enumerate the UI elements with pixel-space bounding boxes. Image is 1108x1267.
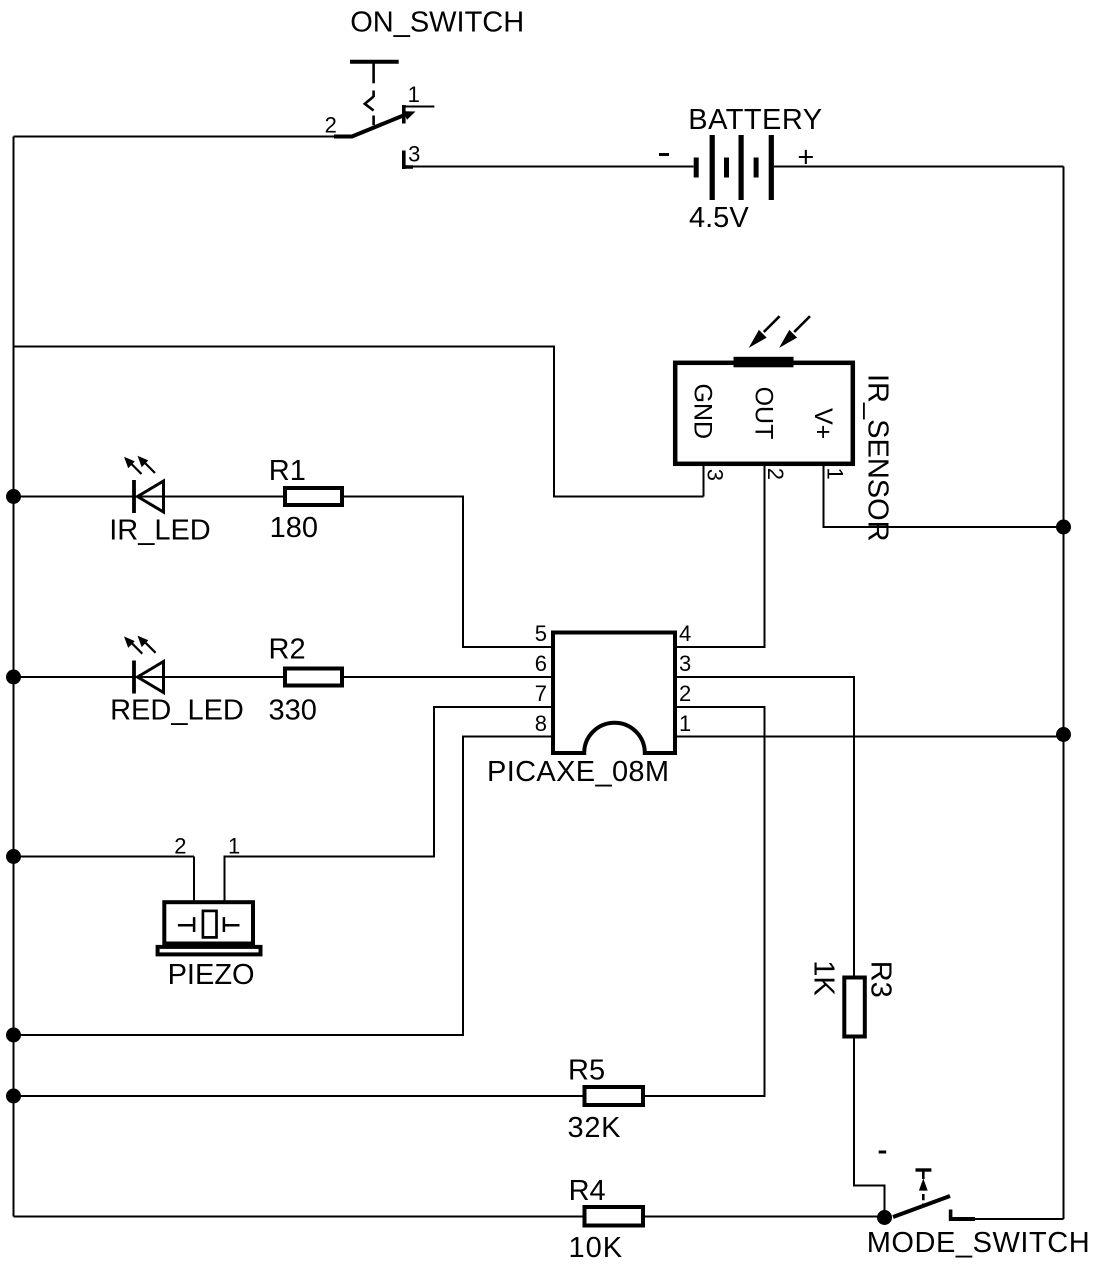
svg-text:2: 2 [325, 112, 337, 137]
LED D2 RED_LED [124, 636, 164, 694]
wire R5 to PICAXE pin 2 [645, 707, 765, 1096]
svg-text:R1: R1 [269, 455, 306, 487]
svg-text:R4: R4 [569, 1175, 606, 1207]
resistor R5 [585, 1087, 644, 1105]
wire R1 to PICAXE pin 5 [344, 497, 553, 648]
svg-text:ON_SWITCH: ON_SWITCH [350, 6, 524, 38]
wire left rail to IR_LED [14, 496, 284, 498]
wire left rail to IR_SENSOR GND pin 3 [14, 347, 704, 497]
battery BT1 4.5V [694, 135, 774, 200]
svg-text:3: 3 [679, 651, 691, 676]
svg-text:R2: R2 [269, 633, 306, 665]
svg-text:1: 1 [408, 82, 420, 107]
svg-text:R3: R3 [864, 961, 896, 998]
label battery minus [659, 153, 669, 156]
svg-text:4.5V: 4.5V [689, 202, 749, 234]
IR sensor U2 IR_SENSOR [675, 316, 853, 464]
wire ON_SWITCH pin 3 to battery minus [411, 166, 694, 168]
piezo sounder LS1 PIEZO [158, 902, 261, 954]
svg-text:MODE_SWITCH: MODE_SWITCH [867, 1227, 1091, 1259]
svg-text:3: 3 [703, 469, 728, 481]
resistor R3 [844, 978, 865, 1037]
wire IR_SENSOR OUT pin 2 to PICAXE pin 4 [675, 465, 765, 647]
svg-text:RED_LED: RED_LED [110, 694, 244, 726]
wire right power rail [1063, 167, 1065, 1220]
wire PIEZO pin 1 to PICAXE pin 7 [225, 707, 554, 903]
svg-text:PICAXE_08M: PICAXE_08M [487, 756, 669, 788]
switch SW1 ON_SWITCH [334, 62, 434, 169]
wire R2 to PICAXE pin 6 [344, 676, 553, 678]
svg-text:2: 2 [763, 468, 788, 480]
resistor R2 [285, 669, 342, 686]
wire left rail to R5 [14, 1095, 583, 1097]
svg-text:1: 1 [228, 833, 240, 858]
svg-text:10K: 10K [569, 1232, 624, 1264]
svg-text:330: 330 [269, 694, 317, 726]
junction node: left rail / IR_LED [6, 489, 21, 504]
wire left rail to PIEZO pin 2 [14, 857, 195, 904]
svg-text:R5: R5 [568, 1055, 605, 1087]
svg-text:PIEZO: PIEZO [168, 959, 255, 991]
junction node: left rail / R5 [6, 1089, 21, 1104]
wire R3 to MODE_SWITCH common [854, 1039, 885, 1218]
wire left rail to R4 [14, 1216, 583, 1218]
svg-text:V+: V+ [809, 408, 837, 439]
junction node: left rail / RED_LED [6, 670, 21, 685]
wire MODE_SWITCH contact to right rail [975, 1218, 1064, 1220]
svg-text:1K: 1K [808, 960, 840, 996]
svg-text:5: 5 [535, 621, 547, 646]
junction node: right rail / PICAXE pin 1 [1056, 727, 1071, 742]
junction node: left rail / PICAXE pin 8 [6, 1028, 21, 1043]
label minus (MODE_SWITCH) [879, 1151, 887, 1154]
svg-text:32K: 32K [568, 1112, 622, 1144]
svg-text:1: 1 [823, 468, 848, 480]
svg-text:180: 180 [270, 512, 318, 544]
LED D1 IR_LED [124, 456, 164, 513]
resistor R1 [285, 488, 342, 505]
svg-text:2: 2 [679, 681, 691, 706]
junction node: MODE_SWITCH common [877, 1210, 892, 1225]
wire PICAXE pin 3 to R3 [675, 677, 854, 976]
wire PICAXE pin 8 to left rail [14, 737, 554, 1036]
wire top: left rail to ON_SWITCH pin 2 [14, 136, 337, 138]
wire IR_SENSOR V+ pin 1 to right rail [824, 465, 1064, 527]
svg-text:6: 6 [535, 651, 547, 676]
svg-text:7: 7 [535, 681, 547, 706]
wire R4 to MODE_SWITCH common [645, 1216, 885, 1218]
junction node: left rail / PIEZO pin 2 [6, 849, 21, 864]
switch SW2 MODE_SWITCH [893, 1170, 975, 1221]
svg-text:4: 4 [679, 621, 691, 646]
wire battery plus to right rail [774, 166, 1064, 168]
IC U1 PICAXE_08M [553, 633, 675, 754]
svg-text:8: 8 [535, 711, 547, 736]
resistor R4 [585, 1207, 644, 1226]
svg-text:IR_SENSOR: IR_SENSOR [862, 374, 894, 542]
wire left rail to RED_LED [14, 676, 284, 678]
svg-text:2: 2 [174, 833, 186, 858]
svg-text:OUT: OUT [750, 387, 778, 440]
svg-text:BATTERY: BATTERY [688, 104, 822, 136]
wire left power rail [13, 137, 15, 1217]
svg-text:IR_LED: IR_LED [109, 515, 211, 547]
wire PICAXE pin 1 to right rail [675, 736, 1064, 738]
svg-text:+: + [797, 142, 814, 174]
junction node: right rail / IR_SENSOR V+ [1056, 520, 1071, 535]
svg-text:1: 1 [679, 711, 691, 736]
svg-text:GND: GND [688, 384, 716, 440]
svg-text:3: 3 [408, 142, 420, 167]
